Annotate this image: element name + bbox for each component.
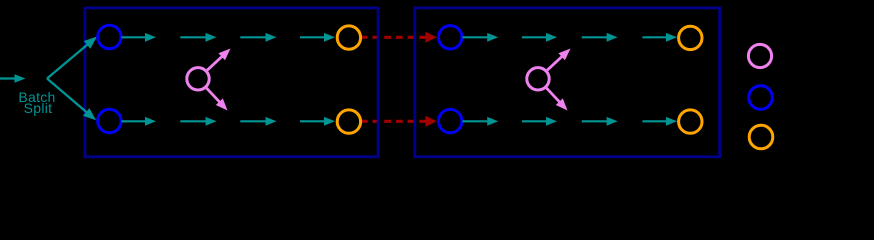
node: violet circle box1 (optimizer) [187,68,209,90]
wire: violet arrow down-right box1 [206,88,227,111]
node: orange circle box1 row1 [337,26,360,49]
node: orange circle box2 row1 [679,26,702,49]
node: blue circle box1 row1 [98,25,121,48]
wire: split arrow lower [47,79,96,121]
legend: blue circle [749,86,773,110]
wire: violet arrow up-right box2 [547,49,570,71]
node: blue circle box2 row2 [439,109,462,132]
box: worker 1 frame [85,8,378,157]
wire: input arrow left [0,74,26,83]
node: orange circle box2 row2 [679,110,702,133]
wire: teal arrows box2 row1 [462,33,677,42]
node: blue circle box2 row1 [439,26,462,49]
wire: dashed darkred row1 box1->box2 [361,32,437,43]
wire: teal arrows box1 row2 [122,117,336,126]
box: worker 2 frame [415,8,720,157]
legend: orange circle [749,125,773,149]
wire: teal arrows box1 row1 [122,33,336,42]
node: orange circle box1 row2 [337,110,360,133]
wire: dashed darkred row2 box1->box2 [361,116,437,127]
legend: violet circle [748,44,771,67]
node: violet circle box2 (optimizer) [527,68,549,90]
wire: split arrow upper [47,37,97,79]
wire: teal arrows box2 row2 [462,117,677,126]
svg-text:Split: Split [24,100,53,116]
node: blue circle box1 row2 [98,109,121,132]
wire: violet arrow down-right box2 [546,88,567,111]
wire: violet arrow up-right box1 [207,49,230,71]
